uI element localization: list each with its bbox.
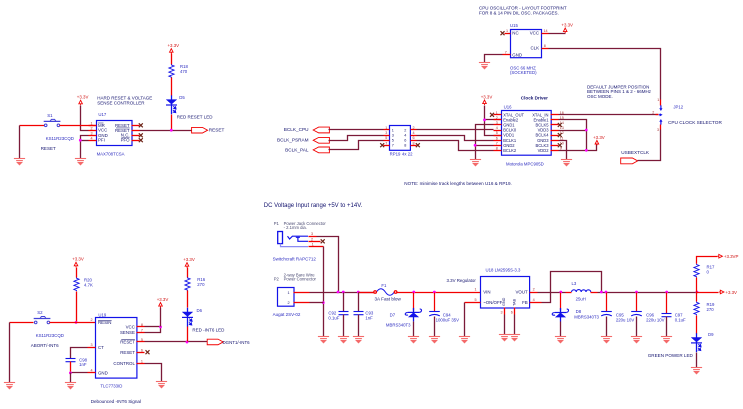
svg-text:3: 3 — [496, 121, 498, 125]
svg-text:BCLK2: BCLK2 — [503, 148, 517, 153]
wire U19 nRESET to port — [145, 341, 208, 343]
wire U16 XTAL_IN to JP12 pin2 — [559, 114, 659, 116]
pin name U18 ON/OFF — [483, 300, 502, 305]
pin name U19 CT — [98, 345, 104, 350]
svg-text:CT: CT — [98, 345, 104, 350]
svg-text:RESET: RESET — [120, 350, 135, 355]
svg-text:KS11R23CQD: KS11R23CQD — [36, 333, 64, 338]
svg-text:GND: GND — [98, 370, 108, 375]
svg-text:2: 2 — [91, 318, 93, 322]
switch S1 — [44, 119, 61, 126]
svg-text:8: 8 — [544, 44, 546, 48]
resistor R18 — [169, 64, 174, 78]
pin stub U19 pin 8 — [137, 326, 145, 328]
svg-text:+3.3V: +3.3V — [725, 290, 737, 295]
svg-text:VCC: VCC — [530, 31, 539, 36]
svg-text:GND: GND — [502, 297, 506, 306]
no-connect U19 RESET — [146, 350, 150, 354]
wire RP19 pin4 to U16 BCLK1 — [417, 136, 494, 141]
ground (U16 right) — [561, 160, 572, 166]
svg-text:2: 2 — [496, 116, 498, 120]
junction C96 / 3.3V rail — [635, 291, 638, 294]
wire U17 GND to vertical — [81, 136, 89, 159]
svg-text:NC: NC — [512, 31, 518, 36]
wire C97 down red — [666, 293, 668, 314]
wire P1 pin1 to ground rail — [323, 247, 325, 337]
wire S1 to U17 MR — [60, 125, 97, 127]
svg-text:5: 5 — [385, 136, 387, 140]
pin name U15 NC — [512, 31, 518, 36]
wire C97 to ground — [666, 317, 668, 337]
diode D7 MBRS340T3 — [405, 308, 421, 322]
switch S2 — [34, 317, 51, 324]
svg-text:7: 7 — [385, 141, 387, 145]
svg-text:3: 3 — [501, 310, 503, 314]
pin name U19 CONTROL — [113, 361, 135, 366]
power +3.3V (U17 VCC) — [77, 95, 89, 106]
svg-text:U17: U17 — [98, 112, 106, 117]
power +3.3V (U16 right) — [593, 135, 605, 146]
wire USBEXTCLK to JP12 pin3 — [638, 130, 661, 161]
LED D6 — [182, 308, 193, 327]
svg-text:2: 2 — [413, 126, 415, 130]
svg-text:3: 3 — [657, 128, 659, 132]
svg-text:1nF: 1nF — [365, 316, 373, 321]
wire +3.3V to U17 VCC — [81, 106, 89, 131]
pin stub U18 VOUT — [530, 292, 538, 294]
resistor R16 — [185, 277, 190, 291]
pin name U16 GND2 — [503, 143, 515, 148]
ground (S2) — [4, 383, 15, 389]
oscillator U15 body — [511, 30, 542, 58]
pin stub U18 FB — [530, 302, 542, 304]
pin stub U16 pin 8 — [494, 150, 502, 152]
pin name U16 BCLK4 — [536, 133, 550, 138]
svg-text:+3.3V: +3.3V — [167, 43, 179, 48]
svg-text:D5: D5 — [179, 95, 185, 100]
regulator U18 LM2595S-3.3 body — [481, 277, 530, 309]
junction R17-R19 / 3.3V rail — [696, 291, 699, 294]
wire R19 to D9 — [696, 316, 698, 334]
wire U16 Enable1 down — [559, 120, 587, 151]
wire U16 VDD2 to +3.3V — [559, 145, 597, 151]
svg-text:270: 270 — [707, 307, 715, 312]
svg-text:- 2.1mm dia.: - 2.1mm dia. — [284, 225, 307, 230]
svg-text:4: 4 — [91, 368, 93, 372]
wire S1 left vertical — [19, 126, 21, 159]
svg-text:D7: D7 — [390, 312, 396, 317]
svg-text:BCLK_CPU: BCLK_CPU — [284, 127, 309, 132]
junction D7 / +V rail — [412, 291, 415, 294]
svg-text:SENSE CONTROLLER: SENSE CONTROLLER — [97, 100, 145, 105]
svg-text:3: 3 — [385, 131, 387, 135]
svg-text:1: 1 — [312, 243, 314, 247]
svg-text:4: 4 — [91, 136, 93, 140]
pin stub U15 pin 14 — [542, 33, 549, 35]
pin name U19 SENSE — [120, 330, 135, 335]
pin stub U15 pin 7 — [503, 54, 511, 56]
port BCLK_PAL — [313, 147, 329, 153]
pin stub P2 pin 2 — [294, 302, 310, 304]
wire FB feedback loop — [542, 272, 602, 303]
svg-text:~ON/OFF: ~ON/OFF — [483, 300, 502, 305]
svg-text:3A Fast blow: 3A Fast blow — [375, 297, 402, 302]
ground (U18 GND) — [499, 335, 510, 341]
pin stub U17 pin 7 — [132, 130, 140, 132]
svg-text:1: 1 — [392, 128, 394, 132]
capacitor C93 — [354, 312, 364, 315]
pin stub P1 pin 1 — [309, 246, 324, 248]
wire U18 TAB to ground — [514, 315, 516, 335]
svg-text:+3.3VP: +3.3VP — [724, 254, 739, 259]
svg-text:OSC MODE.: OSC MODE. — [587, 94, 613, 99]
svg-text:+3.3V: +3.3V — [183, 257, 195, 262]
svg-text:25uH: 25uH — [576, 296, 586, 301]
junction C95 / 3.3V rail — [605, 291, 608, 294]
ground (C92) — [338, 337, 349, 343]
junction Enable2/+3.3V — [483, 119, 486, 122]
junction P1 pin3 / +V rail — [337, 291, 340, 294]
wire D8 down red — [560, 293, 562, 311]
wire C92 to ground — [343, 315, 345, 337]
svg-text:RED RESET LED: RED RESET LED — [177, 115, 213, 120]
svg-text:PFO: PFO — [121, 138, 131, 143]
wire ON/OFF to ground — [464, 303, 466, 337]
wire BCLK_PSRAM to RP19 pin3 — [329, 136, 384, 141]
wire C95 to ground — [606, 317, 608, 337]
wire D9 to ground — [696, 353, 698, 368]
pin name U15 CLK — [530, 45, 539, 50]
svg-text:0.1uF: 0.1uF — [328, 316, 339, 321]
pin stub U16 pin 15 — [551, 119, 559, 121]
pin name U15 VCC — [530, 31, 539, 36]
svg-text:2: 2 — [288, 301, 290, 305]
port USBEXTCLK — [621, 158, 638, 164]
inductor L3 — [572, 290, 591, 292]
svg-text:3: 3 — [311, 232, 313, 236]
pin stub U18 GND down — [504, 308, 506, 315]
svg-text:+3.3V: +3.3V — [593, 135, 605, 140]
pin name U19 VCC — [126, 324, 135, 329]
wire +V red segment before fuse — [359, 292, 374, 294]
pin name U18 FB — [522, 300, 528, 305]
junction FB / 3.3V rail — [600, 291, 603, 294]
pin name U16 Enable2 — [503, 117, 519, 122]
power +3.3V (rail) — [719, 290, 737, 295]
no-connect U16 BCLK4 — [558, 133, 562, 137]
pin name U16 GND3 — [537, 138, 549, 143]
pin stub U16 pin 2 — [494, 119, 502, 121]
pin stub U15 pin 8 — [542, 48, 549, 50]
pin name U17 RESET right — [115, 128, 130, 133]
pin stub U17 pin 8 — [132, 125, 140, 127]
ground (S1) — [14, 159, 25, 165]
pin stub RP19 pin 8 — [411, 145, 417, 147]
voltage supervisor U19 TLC7733ID body — [96, 318, 137, 379]
pin stub U19 pin 1 — [137, 363, 145, 365]
svg-text:U15: U15 — [510, 23, 518, 28]
svg-text:Power Connector: Power Connector — [284, 277, 317, 282]
svg-text:6: 6 — [496, 136, 498, 140]
svg-text:S2: S2 — [37, 310, 43, 315]
wire VOUT to L3 node — [538, 292, 566, 294]
port DGNT1/-INT6 — [207, 339, 223, 345]
wire left of S1 to ground — [20, 125, 45, 127]
pin stub P1 pin 2 — [309, 241, 321, 243]
wire U16 VDD3 to +3.3V rail — [559, 130, 587, 132]
wire L3 to 3.3V rail — [598, 292, 697, 294]
junction C94 / +V rail — [433, 291, 436, 294]
pin name U19 RESET — [120, 340, 135, 345]
svg-text:270: 270 — [197, 282, 205, 287]
pin stub RP19 pin 6 — [411, 140, 417, 142]
wire D5 to RESET node — [171, 115, 173, 131]
wire +3.3V to VCC — [160, 308, 162, 327]
svg-text:1: 1 — [385, 126, 387, 130]
ground (U16 left) — [470, 160, 481, 166]
ground (C96) — [631, 337, 642, 343]
pin stub U19 pin 7 — [137, 332, 145, 334]
svg-text:4x 22: 4x 22 — [402, 151, 413, 156]
svg-text:6: 6 — [141, 348, 143, 352]
wire R17 up red — [696, 278, 698, 293]
wire R18 to D5 — [171, 78, 173, 96]
capacitor C92 — [339, 312, 349, 315]
wire +3.3V to R20 — [76, 268, 78, 278]
wire R19 down red — [696, 293, 698, 302]
pin stub U15 pin 1 — [505, 33, 511, 35]
ground (power input) — [318, 337, 329, 343]
wire U17 RESET out — [140, 130, 192, 132]
svg-text:3.3V Regulator: 3.3V Regulator — [447, 278, 477, 283]
svg-text:Switchcraft RAPC712: Switchcraft RAPC712 — [273, 256, 317, 261]
svg-text:8: 8 — [141, 323, 143, 327]
junction C93 / +V rail — [357, 291, 360, 294]
svg-text:Debounced -INT6 Signal: Debounced -INT6 Signal — [91, 399, 141, 404]
svg-text:5: 5 — [392, 139, 394, 143]
svg-text:FOR 8 & 14 PIN DIL OSC. PACKAG: FOR 8 & 14 PIN DIL OSC. PACKAGES. — [479, 10, 559, 15]
svg-text:(SOCKETED): (SOCKETED) — [510, 70, 537, 75]
wire +3.3V to R16 — [187, 268, 189, 278]
svg-text:CPU CLOCK SELECTOR: CPU CLOCK SELECTOR — [668, 120, 722, 125]
wire D7 down red — [413, 293, 415, 311]
pin stub RP19 pin 4 — [411, 135, 417, 137]
pin stub RP19 pin 5 — [384, 140, 390, 142]
pin name U15 GND — [512, 52, 522, 57]
wire D7 to ground — [413, 322, 415, 337]
pin stub U17 pin 4 — [89, 140, 97, 142]
pin name U16 BCLK2 — [503, 148, 517, 153]
power +3.3V (U19) — [157, 297, 169, 308]
pin name U16 BCLK0 — [503, 128, 517, 133]
jumper JP12 pin 2 — [656, 113, 663, 116]
wire U15 GND to ground — [485, 55, 503, 63]
pin name U18 VIN — [483, 290, 490, 295]
fuse F1 — [374, 289, 397, 296]
svg-text:2: 2 — [404, 128, 406, 132]
svg-text:BCLK_PSRAM: BCLK_PSRAM — [277, 138, 309, 143]
svg-text:2: 2 — [91, 126, 93, 130]
svg-text:MBRS340T3: MBRS340T3 — [574, 314, 599, 319]
op-chip U17 MAX708TCSA body — [97, 121, 133, 146]
svg-text:U18 LM2595S-3.3: U18 LM2595S-3.3 — [486, 267, 521, 272]
junction C97 / 3.3V rail — [665, 291, 668, 294]
junction VDD3 — [585, 129, 588, 132]
svg-text:6: 6 — [413, 136, 415, 140]
ground (D7) — [408, 337, 419, 343]
pin stub U16 pin 13 — [551, 130, 559, 132]
svg-text:2: 2 — [311, 237, 313, 241]
junction RESIN node — [75, 321, 78, 324]
svg-text:4: 4 — [533, 298, 535, 302]
pin stub U17 pin 2 — [89, 130, 97, 132]
svg-text:KS11R23CQD: KS11R23CQD — [46, 136, 74, 141]
ground (C98) — [65, 383, 76, 389]
pin stub U16 pin 4 — [494, 130, 502, 132]
wire GND pin 4 — [71, 372, 88, 374]
svg-text:RESET: RESET — [41, 146, 56, 151]
pin stub P2 pin 1 — [294, 292, 310, 294]
connector P1 jack body — [278, 232, 283, 244]
svg-text:L3: L3 — [572, 281, 577, 286]
svg-text:7: 7 — [141, 329, 143, 333]
pin stub RP19 pin 7 — [384, 145, 390, 147]
pin stub U17 pin 6 — [132, 135, 140, 137]
jumper JP12 pin 3 — [659, 119, 662, 130]
svg-text:NOTE: minimise track lengths b: NOTE: minimise track lengths between U16… — [404, 181, 512, 186]
wire D8 to ground — [560, 322, 562, 337]
svg-text:BCLK_PAL: BCLK_PAL — [285, 148, 309, 153]
port BCLK_PSRAM — [313, 137, 329, 143]
wire C94 down red — [434, 293, 436, 312]
capacitor C95 — [601, 312, 612, 316]
LED D9 — [691, 333, 702, 352]
svg-text:GND: GND — [512, 52, 522, 57]
svg-text:8: 8 — [413, 141, 415, 145]
svg-text:7: 7 — [392, 144, 394, 148]
wire U15 VCC to +3.3V — [549, 33, 566, 35]
pin name U17 PFI — [98, 138, 105, 143]
wire +V rail to fuse — [310, 292, 376, 294]
resistor pack RP19 body — [390, 126, 411, 151]
wire C92 down — [343, 293, 345, 312]
clock driver U16 MPC905 body — [502, 111, 552, 156]
ground (U18 ON/OFF) — [459, 337, 470, 343]
pin stub U19 pin 5 — [137, 341, 145, 343]
pin name U17 VCC — [98, 128, 107, 133]
connector P2 body — [278, 288, 295, 307]
svg-text:S1: S1 — [47, 113, 53, 118]
svg-text:P2: P2 — [274, 277, 280, 282]
wire R20 to RESIN node — [76, 292, 78, 323]
svg-text:5: 5 — [496, 131, 498, 135]
svg-text:Motorola MPC905D: Motorola MPC905D — [506, 162, 544, 167]
wire R16 to D6 — [187, 291, 189, 308]
LED D5 — [166, 95, 177, 114]
svg-text:1: 1 — [506, 29, 508, 33]
no-connect U16 XTAL_OUT — [490, 113, 494, 117]
svg-text:7: 7 — [505, 51, 507, 55]
ground (D8) — [555, 337, 566, 343]
no-connect U17 PFO — [139, 138, 143, 142]
wire C94 to ground — [434, 317, 436, 337]
svg-text:1: 1 — [288, 291, 290, 295]
pin name U16 XTAL_IN — [532, 112, 548, 117]
wire +3.3V to R18 — [171, 54, 173, 65]
svg-text:+3.3V: +3.3V — [77, 95, 89, 100]
no-connect U16 BCLK3 — [558, 143, 562, 147]
pin stub U16 pin 1 — [494, 114, 502, 116]
pin name U17 RESET right — [115, 123, 130, 128]
svg-text:+3.3V: +3.3V — [561, 22, 573, 27]
wire C96 down red — [636, 293, 638, 312]
pin name U19 RESET — [120, 350, 135, 355]
wire C98 to GND pin — [70, 362, 72, 373]
capacitor C98 — [66, 359, 76, 362]
wire L3 right stub — [591, 292, 598, 294]
wire C98 ground — [70, 373, 72, 383]
svg-text:F1: F1 — [381, 283, 387, 288]
svg-text:RESET: RESET — [209, 127, 225, 132]
pin stub U16 pin 9 — [551, 150, 559, 152]
pin name U17 N.C. right — [121, 133, 130, 138]
pin stub U16 pin 6 — [494, 140, 502, 142]
svg-text:1: 1 — [141, 360, 143, 364]
svg-text:P1: P1 — [274, 221, 280, 226]
wire CT to C98 — [71, 348, 88, 359]
svg-text:DC Voltage Input range +5V to: DC Voltage Input range +5V to +14V. — [264, 203, 363, 209]
svg-text:4.7K: 4.7K — [84, 282, 93, 287]
svg-text:3: 3 — [91, 343, 93, 347]
svg-text:3: 3 — [91, 131, 93, 135]
ground (C94) — [429, 337, 440, 343]
pin name U16 BCLK1 — [503, 138, 517, 143]
power +3.3V (U15) — [561, 22, 573, 33]
svg-text:8: 8 — [404, 144, 406, 148]
wire P1 pin3 to +V rail — [317, 237, 339, 293]
svg-text:TLC7733ID: TLC7733ID — [100, 384, 122, 389]
power +3.3VP — [717, 254, 738, 259]
pin stub U16 pin 7 — [494, 145, 502, 147]
svg-text:220u 10V: 220u 10V — [646, 318, 665, 323]
svg-text:14: 14 — [544, 29, 548, 33]
pin name U16 GND1 — [503, 123, 515, 128]
svg-text:470: 470 — [180, 69, 188, 74]
svg-text:1: 1 — [657, 98, 659, 102]
svg-text:U19: U19 — [98, 312, 106, 317]
ground (U15) — [479, 63, 490, 69]
svg-text:FB: FB — [522, 300, 528, 305]
svg-text:5: 5 — [475, 298, 477, 302]
power +3.3V (R16) — [183, 257, 195, 268]
ground (U18 TAB) — [509, 335, 520, 341]
capacitor C94 — [429, 312, 440, 316]
wire U16 GND1 left — [476, 125, 494, 160]
svg-text:+3.3V: +3.3V — [72, 257, 84, 262]
svg-text:VIN: VIN — [483, 290, 490, 295]
connector P1 sleeve contact — [281, 244, 309, 247]
junction U16 GND1/GND2 — [474, 144, 477, 147]
svg-text:Clock Driver: Clock Driver — [521, 95, 548, 100]
pin stub U19 pin 4 — [88, 372, 96, 374]
pin name U17 MR — [98, 123, 105, 128]
wire left of S2 — [10, 322, 34, 324]
wire C93 to ground — [358, 315, 360, 337]
svg-text:1: 1 — [475, 288, 477, 292]
ground (C93) — [353, 337, 364, 343]
svg-text:U16: U16 — [504, 104, 512, 109]
svg-text:TAB: TAB — [513, 298, 517, 306]
